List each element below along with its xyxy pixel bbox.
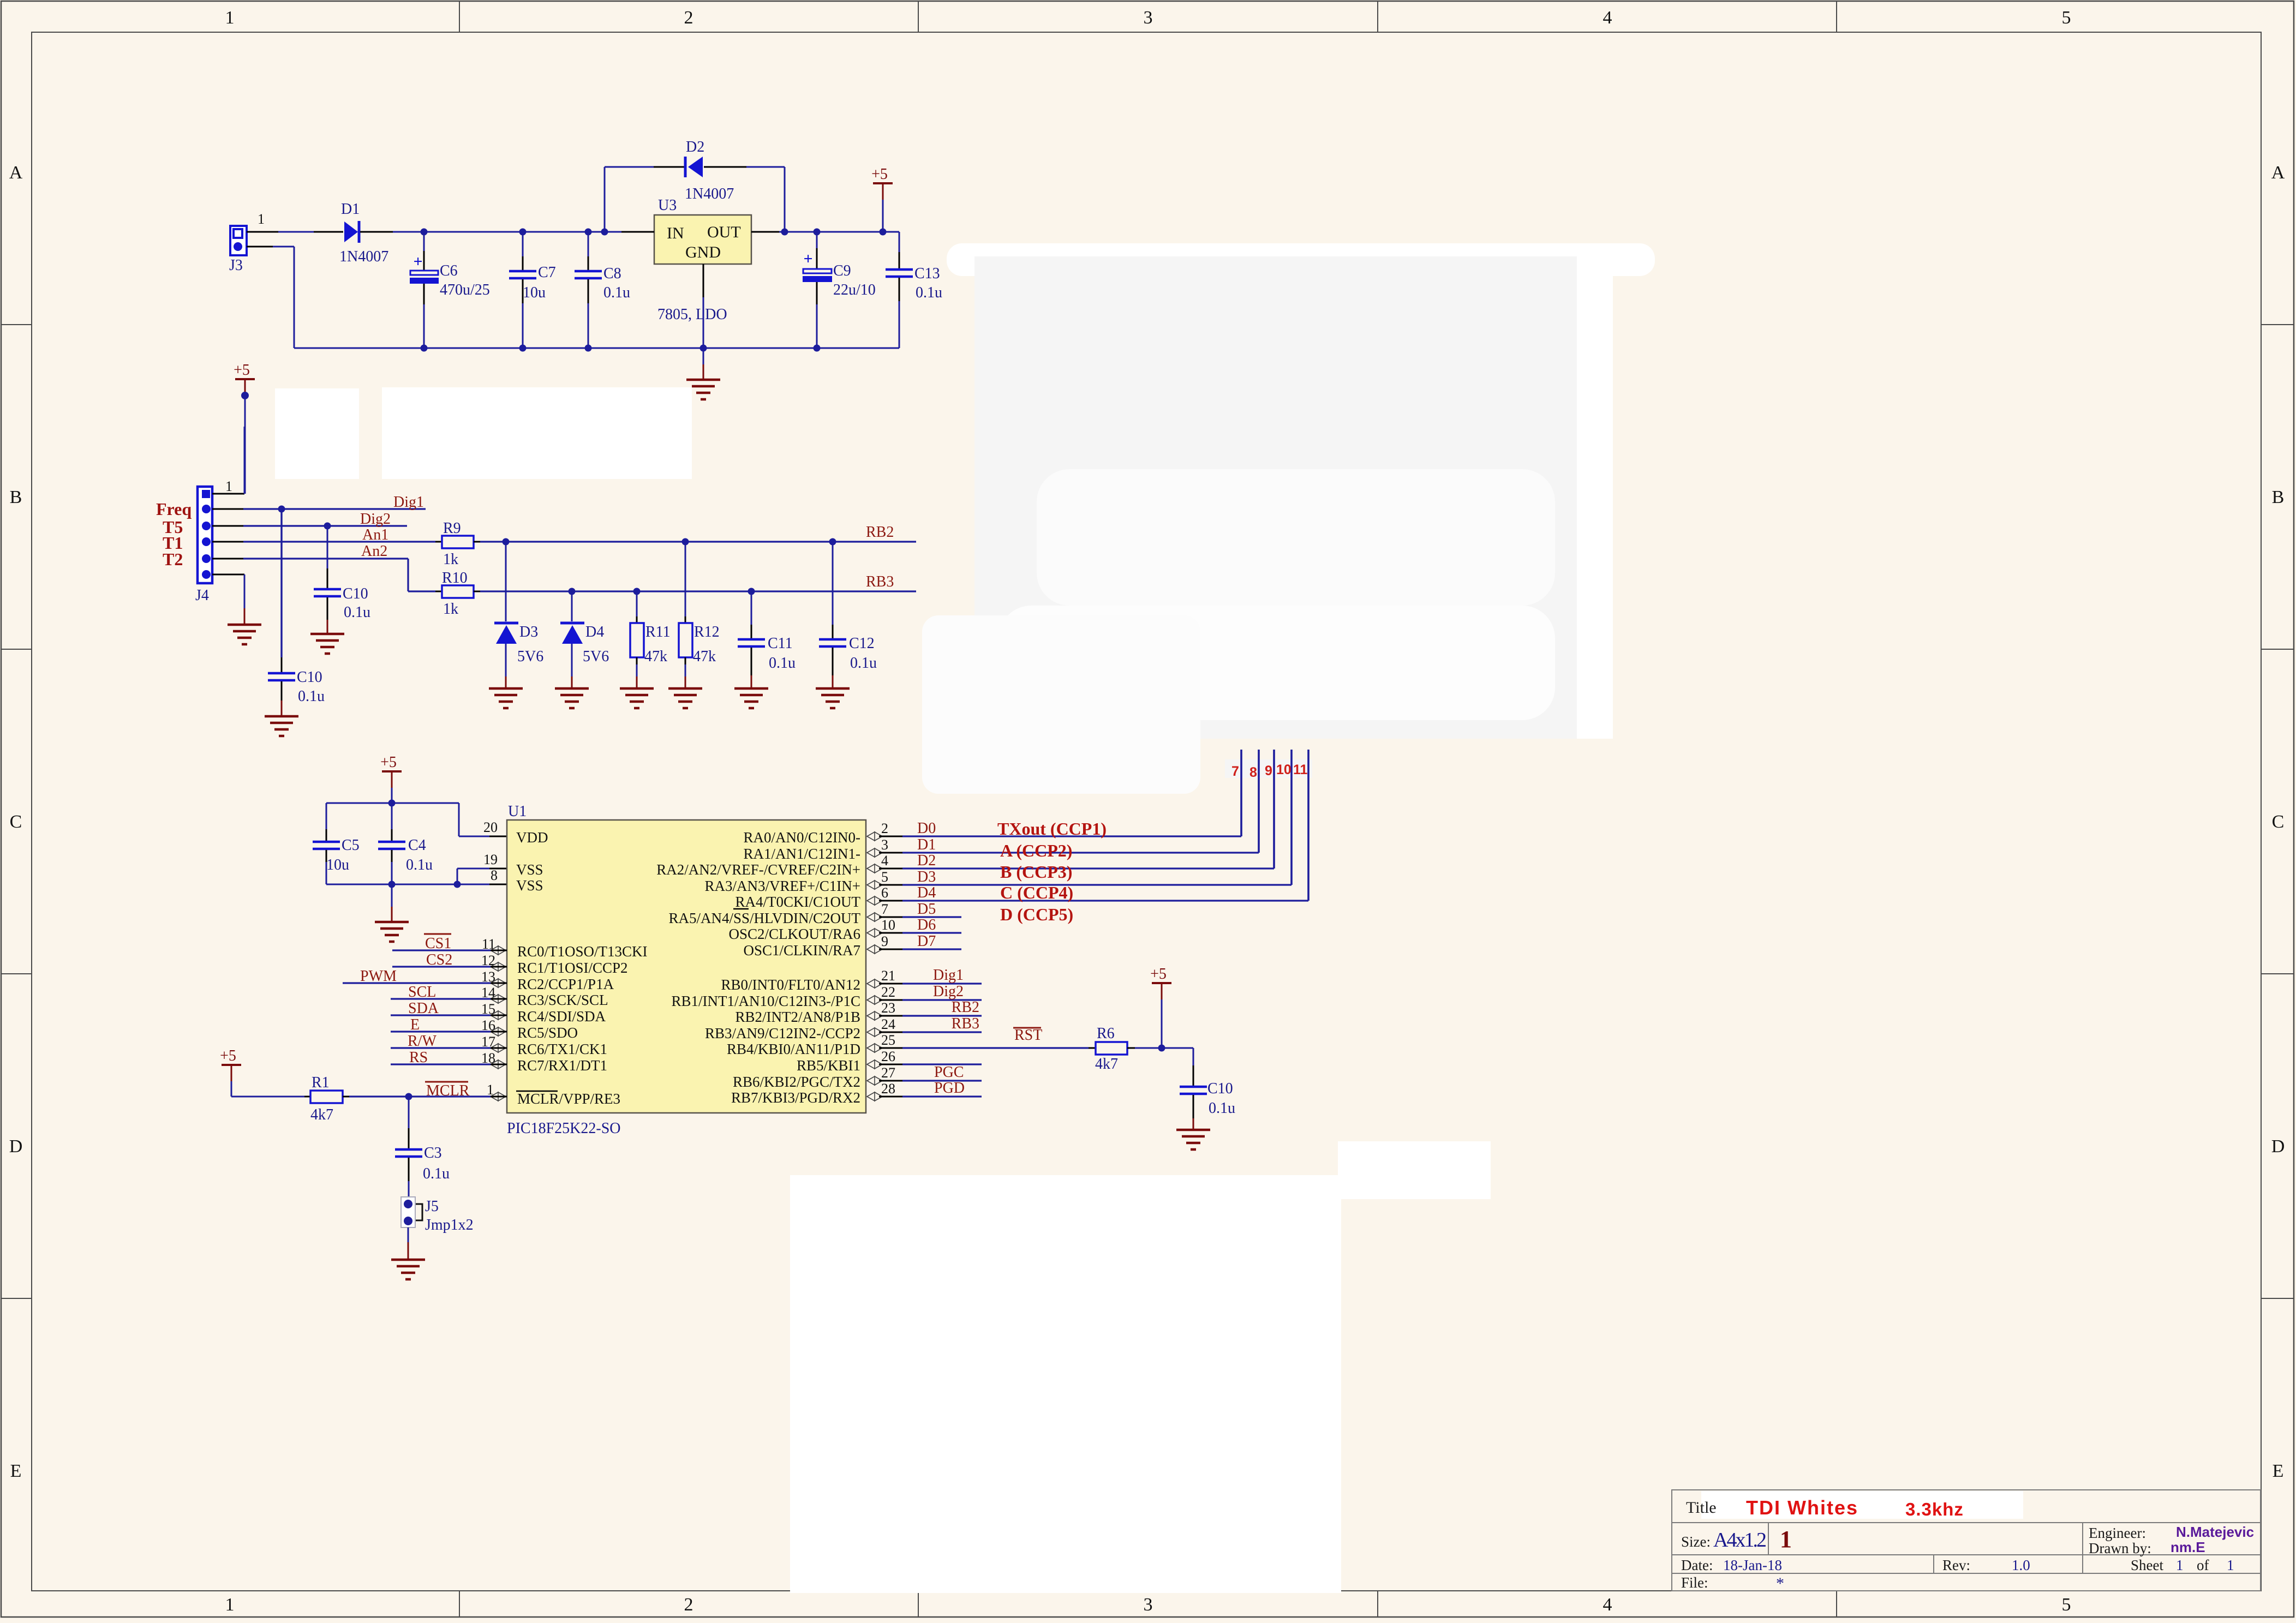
svg-text:1: 1 [258,211,265,227]
connector J4 [195,487,212,604]
svg-text:PIC18F25K22-SO: PIC18F25K22-SO [507,1120,620,1137]
erased area scribble 2 [1037,469,1555,606]
svg-text:1: 1 [2176,1557,2184,1573]
title TDI Whites 3.3khz [1746,1496,1964,1519]
svg-text:PGD: PGD [934,1080,965,1097]
svg-text:A4x1.2: A4x1.2 [1713,1529,1766,1552]
svg-text:E: E [410,1016,420,1033]
svg-text:0.1u: 0.1u [1209,1100,1235,1117]
label RB2 [866,524,894,541]
svg-text:An2: An2 [361,543,387,560]
label bus pin 7 [1231,764,1239,779]
svg-text:5: 5 [881,869,888,885]
svg-text:of: of [2197,1557,2209,1573]
svg-text:Rev:: Rev: [1942,1557,1970,1573]
svg-text:0.1u: 0.1u [850,655,877,672]
svg-text:28: 28 [881,1081,895,1097]
label T1 [163,533,183,553]
svg-text:D2: D2 [686,139,704,155]
svg-text:C4: C4 [408,837,426,854]
svg-text:0.1u: 0.1u [603,284,630,301]
capacitor C7 [509,232,556,348]
svg-text:C10: C10 [1207,1080,1233,1097]
svg-text:C6: C6 [440,262,458,279]
wire D1 to C6 node [360,231,424,233]
svg-text:C9: C9 [833,262,851,279]
wire J3 pin2 down [247,247,294,348]
wire +5 to R1 [231,1096,310,1098]
ground R11 [620,688,654,708]
erased area right strip [1577,256,1613,739]
svg-text:Date:: Date: [1681,1557,1713,1573]
svg-text:+5: +5 [871,166,888,183]
svg-text:C8: C8 [603,265,621,282]
svg-text:A: A [2271,163,2285,183]
zener D3 [494,542,543,688]
svg-text:47k: 47k [644,648,667,665]
capacitor C8 [575,232,630,348]
svg-text:U3: U3 [658,197,677,214]
label sheet number 1 [1780,1526,1792,1553]
svg-text:D6: D6 [917,917,936,933]
svg-text:RB4/KBI0/AN11/P1D: RB4/KBI0/AN11/P1D [727,1041,860,1057]
svg-text:An1: An1 [362,526,388,543]
label An1 [362,526,388,543]
wire PWM net [343,982,507,984]
wire D2 net to bus [879,750,1274,869]
svg-text:7: 7 [1231,764,1239,779]
svg-text:7: 7 [881,901,888,917]
wire R/W net [391,1047,507,1049]
wire pin row y1833 [879,999,982,1001]
label RB2 [952,999,979,1016]
svg-text:A (CCP2): A (CCP2) [1000,841,1072,860]
pin 28 RB7/KBI3/PGD/RX2 [731,1081,895,1106]
capacitor C6 electrolytic [410,232,490,348]
power +5 R1 [220,1047,241,1097]
pin 20 VDD [483,819,548,846]
wire R6 to C10 [1135,1045,1193,1066]
svg-text:B: B [2272,487,2285,507]
pin 27 RB6/KBI2/PGC/TX2 [733,1065,895,1090]
wire U3 IN pin [621,231,654,233]
svg-text:N.Matejevic: N.Matejevic [2176,1524,2254,1540]
svg-text:B (CCP3): B (CCP3) [1000,862,1072,882]
capacitor C9 electrolytic [803,232,876,348]
svg-text:Jmp1x2: Jmp1x2 [425,1217,474,1233]
svg-text:1: 1 [1780,1526,1792,1553]
ground C10 Dig2 [310,634,344,654]
svg-text:4k7: 4k7 [1095,1056,1118,1073]
svg-text:10: 10 [881,917,895,933]
bottom rail wire [294,348,899,349]
ground C10 Dig1 [265,716,298,736]
label Drawn by [2089,1539,2205,1556]
ground C11 [734,688,768,708]
label D4 [917,884,936,901]
label bus pin 11 [1293,762,1308,777]
svg-text:2: 2 [881,821,888,836]
svg-text:D0: D0 [917,820,936,837]
label E [410,1016,420,1033]
pin 22 RB1/INT1/AN10/C12IN3-/P1C [671,984,895,1009]
erased area main blob [974,256,1578,739]
pin 21 RB0/INT0/FLT0/AN12 [721,968,895,993]
pin 5 RA3/AN3/VREF+/C1IN+ [705,869,888,894]
svg-text:RC5/SDO: RC5/SDO [517,1025,578,1041]
wire CS2 net [392,966,507,967]
svg-text:R6: R6 [1097,1025,1115,1042]
pin 3 RA1/AN1/C12IN1- [744,837,889,862]
svg-text:TXout (CCP1): TXout (CCP1) [997,819,1107,839]
svg-text:11: 11 [1293,762,1308,777]
svg-text:23: 23 [881,1000,895,1016]
label C (CCP4) [1000,883,1073,902]
label D1 [917,836,936,853]
label RST [1013,1027,1042,1044]
pin 1 MCLR/VPP/RE3 [487,1082,620,1107]
svg-text:5V6: 5V6 [583,648,609,665]
svg-text:OUT: OUT [707,223,741,241]
svg-text:C: C [10,812,22,832]
capacitor C3 [395,1097,450,1198]
wire pin row y1862 [879,1015,982,1017]
label B (CCP3) [1000,862,1072,882]
label PGD [934,1080,965,1097]
wire SCL net [391,998,507,999]
svg-text:TDI Whites: TDI Whites [1746,1496,1858,1519]
pin 14 RC3/SCK/SCL [481,985,608,1008]
label File [1681,1574,1784,1592]
svg-text:2: 2 [684,1595,693,1615]
node dots decoupling [388,800,461,888]
svg-text:20: 20 [483,819,498,835]
svg-text:3: 3 [1144,8,1153,28]
capacitor C10 on Dig1 [268,506,325,717]
wire RST net [879,1047,1089,1049]
capacitor C12 [819,542,877,688]
power +5 regulator output [871,166,893,232]
diode D1 [339,201,388,265]
label TXout (CCP1) [997,819,1107,839]
svg-text:24: 24 [881,1016,895,1032]
svg-text:1: 1 [2227,1557,2234,1573]
regulator U3 [654,197,751,323]
wire An2 net [212,559,435,591]
label Dig1 [933,967,964,984]
svg-text:D: D [9,1136,23,1157]
svg-text:C (CCP4): C (CCP4) [1000,883,1073,902]
pin 16 RC5/SDO [481,1017,578,1041]
svg-text:J3: J3 [229,257,243,274]
svg-text:J4: J4 [195,587,209,604]
pin 10 OSC2/CLKOUT/RA6 [728,917,895,942]
label Dig1 [393,494,424,511]
svg-text:PGC: PGC [934,1064,964,1081]
svg-text:D2: D2 [917,852,936,869]
svg-text:21: 21 [881,968,895,984]
svg-text:MCLR/VPP/RE3: MCLR/VPP/RE3 [517,1091,620,1107]
svg-text:RB2: RB2 [866,524,894,541]
svg-text:RB3: RB3 [952,1015,979,1032]
svg-text:C12: C12 [849,635,875,652]
svg-text:1: 1 [225,1595,235,1615]
svg-text:C11: C11 [768,635,793,652]
svg-text:D1: D1 [917,836,936,853]
svg-text:22u/10: 22u/10 [833,282,876,298]
resistor R10 [435,570,480,618]
svg-text:RB1/INT1/AN10/C12IN3-/P1C: RB1/INT1/AN10/C12IN3-/P1C [671,993,860,1009]
resistor R1 [310,1074,343,1123]
svg-text:Sheet: Sheet [2131,1557,2163,1573]
pin 19 VSS [483,852,543,878]
pin 6 RA4/T0CKI/C1OUT [736,885,889,910]
svg-text:SDA: SDA [408,1000,439,1017]
zener D4 [560,591,609,688]
label Dig2 [933,983,964,1000]
label Date [1681,1557,1782,1573]
svg-text:CS1: CS1 [425,935,451,952]
erased area top band [947,243,1655,276]
svg-text:1.0: 1.0 [2012,1557,2030,1573]
svg-text:Dig1: Dig1 [933,967,964,984]
wire pin row y1803 [879,983,982,985]
svg-text:RC3/SCK/SCL: RC3/SCK/SCL [517,992,608,1008]
wire D5 net [879,917,961,918]
svg-text:10: 10 [1276,762,1291,777]
top rail wire [424,231,621,233]
svg-text:RA5/AN4/SS/HLVDIN/C2OUT: RA5/AN4/SS/HLVDIN/C2OUT [668,910,860,926]
svg-text:R10: R10 [442,570,468,586]
label D5 [917,901,936,918]
svg-text:RC1/T1OSI/CCP2: RC1/T1OSI/CCP2 [517,960,628,976]
svg-text:RB5/KBI1: RB5/KBI1 [797,1057,860,1074]
label bus pin 9 [1265,763,1272,778]
svg-text:IN: IN [667,224,684,242]
svg-text:4: 4 [1603,8,1612,28]
pin 4 RA2/AN2/VREF-/CVREF/C2IN+ [656,853,888,878]
label Freq [156,499,192,519]
svg-text:RS: RS [409,1049,428,1066]
label CS2 [426,951,452,968]
svg-text:R12: R12 [694,624,720,640]
diode D2 bypass [605,139,785,232]
svg-text:File:: File: [1681,1574,1708,1591]
label An2 [361,543,387,560]
svg-text:SCL: SCL [408,984,436,1001]
connector J3 [229,226,247,274]
svg-text:OSC2/CLKOUT/RA6: OSC2/CLKOUT/RA6 [728,926,860,942]
wire RS net [391,1063,507,1065]
svg-text:+: + [803,250,812,268]
erased area mid patch [1338,1141,1491,1199]
wire MCLR net [343,1093,507,1100]
svg-text:E: E [10,1461,22,1481]
svg-text:3: 3 [1144,1595,1153,1615]
ground decoupling [375,884,409,942]
svg-text:0.1u: 0.1u [406,857,433,873]
wire D7 net [879,949,961,950]
svg-text:D: D [2271,1136,2285,1157]
svg-text:9: 9 [1265,763,1272,778]
svg-text:0.1u: 0.1u [344,604,370,621]
wire VSS bottom [326,869,507,884]
svg-text:GND: GND [685,243,721,261]
node dots RB rows [503,538,836,595]
label Engineer [2089,1524,2254,1541]
label Rev [1942,1557,2030,1573]
svg-text:D1: D1 [341,201,360,218]
erased area scribble 3 [998,606,1555,720]
svg-text:5V6: 5V6 [517,648,543,665]
svg-text:C7: C7 [538,264,556,281]
svg-text:RA0/AN0/C12IN0-: RA0/AN0/C12IN0- [744,829,861,846]
wire J3 pin1 to D1 [247,211,343,232]
svg-text:RB7/KBI3/PGD/RX2: RB7/KBI3/PGD/RX2 [731,1089,860,1106]
pin 18 RC7/RX1/DT1 [481,1050,607,1074]
label D2 [917,852,936,869]
svg-text:19: 19 [483,852,498,867]
svg-text:C13: C13 [914,265,940,282]
title text white patch [1701,1491,2023,1519]
ground C12 [816,688,850,708]
capacitor C5 [313,803,360,884]
svg-text:+5: +5 [234,362,250,379]
pin 17 RC6/TX1/CK1 [481,1034,607,1057]
wire pin row y1981 [879,1080,982,1082]
svg-text:8: 8 [1249,765,1257,780]
svg-text:R9: R9 [443,520,461,537]
wire D3 net to bus [879,750,1291,885]
label D0 [917,820,936,837]
svg-text:RB3: RB3 [866,573,894,590]
svg-text:R11: R11 [645,624,671,640]
svg-text:47k: 47k [693,648,716,665]
svg-text:RC4/SDI/SDA: RC4/SDI/SDA [517,1008,606,1025]
pin 7 RA5/AN4/SS/HLVDIN/C2OUT [668,901,888,926]
svg-text:RA2/AN2/VREF-/CVREF/C2IN+: RA2/AN2/VREF-/CVREF/C2IN+ [656,861,860,878]
svg-text:J5: J5 [425,1198,439,1215]
svg-text:nm.E: nm.E [2171,1539,2205,1555]
svg-text:D7: D7 [917,933,936,950]
svg-text:Freq: Freq [156,499,192,519]
pin 8 VSS [491,867,543,894]
svg-text:VSS: VSS [516,861,543,878]
label SDA [408,1000,439,1017]
label Size [1681,1529,1766,1552]
svg-text:5: 5 [2062,1595,2071,1615]
label RB3 [866,573,894,590]
svg-text:1k: 1k [443,551,458,568]
svg-text:D4: D4 [917,884,936,901]
erased remnant behind bus numbers [1225,759,1312,778]
wire SDA net [391,1014,507,1016]
label D6 [917,917,936,933]
svg-text:OSC1/CLKIN/RA7: OSC1/CLKIN/RA7 [743,942,860,959]
svg-text:Dig1: Dig1 [393,494,424,511]
svg-text:VSS: VSS [516,877,543,894]
wire D4 net to bus [879,750,1308,901]
svg-text:26: 26 [881,1049,895,1064]
pin 9 OSC1/CLKIN/RA7 [743,933,888,959]
pin 24 RB3/AN9/C12IN2-/CCP2 [705,1016,895,1041]
svg-text:D4: D4 [585,624,604,640]
svg-text:T2: T2 [163,549,183,569]
ground R12 [668,688,702,708]
erased area lower left [922,615,1200,794]
svg-text:CS2: CS2 [426,951,452,968]
power +5 J4 [234,362,255,494]
pin 11 RC0/T1OSO/T13CKI [482,936,648,960]
ground D4 [555,688,589,708]
svg-text:1: 1 [225,478,232,494]
wire J4 pin1 to +5 [212,427,244,494]
svg-text:1k: 1k [443,601,458,618]
svg-text:0.1u: 0.1u [423,1165,450,1182]
pin 23 RB2/INT2/AN8/P1B [735,1000,895,1025]
resistor R6 [1089,1025,1135,1073]
wire U3 OUT to +5 node [751,231,899,233]
svg-text:RC0/T1OSO/T13CKI: RC0/T1OSO/T13CKI [517,943,648,960]
label D3 [917,869,936,885]
label RB3 [952,1015,979,1032]
svg-text:C: C [2272,812,2285,832]
svg-text:PWM: PWM [360,968,397,985]
label T5 [163,517,183,537]
label Sheet of [2131,1557,2234,1573]
svg-text:RA3/AN3/VREF+/C1IN+: RA3/AN3/VREF+/C1IN+ [705,878,860,894]
svg-text:Drawn by:: Drawn by: [2089,1540,2151,1556]
power +5 MCU [380,754,402,803]
svg-text:RA1/AN1/C12IN1-: RA1/AN1/C12IN1- [744,846,861,862]
svg-text:7805, LDO: 7805, LDO [657,306,727,323]
capacitor C13 [886,232,942,348]
pin 25 RB4/KBI0/AN11/P1D [727,1032,895,1057]
node dots top rail [421,229,887,236]
svg-text:10u: 10u [523,284,546,301]
resistor R11 [630,591,671,688]
svg-text:D3: D3 [917,869,936,885]
label R/W [408,1033,437,1050]
svg-text:C3: C3 [424,1145,442,1161]
label bus pin 8 [1249,765,1257,780]
resistor R12 [679,542,720,688]
label D7 [917,933,936,950]
svg-text:1N4007: 1N4007 [339,248,388,265]
jumper J5 [401,1197,474,1233]
svg-text:RB6/KBI2/PGC/TX2: RB6/KBI2/PGC/TX2 [733,1074,860,1090]
svg-text:E: E [2273,1461,2284,1481]
label A (CCP2) [1000,841,1072,860]
svg-text:3: 3 [881,837,888,853]
svg-text:1: 1 [225,8,235,28]
svg-text:RB3/AN9/C12IN2-/CCP2: RB3/AN9/C12IN2-/CCP2 [705,1025,860,1041]
svg-text:VDD: VDD [516,829,548,846]
svg-text:RB0/INT0/FLT0/AN12: RB0/INT0/FLT0/AN12 [721,977,860,993]
wire Dig2 net [212,525,407,527]
ground C10 RST [1176,1130,1210,1149]
label Title [1686,1499,1717,1517]
svg-text:18-Jan-18: 18-Jan-18 [1723,1557,1782,1573]
wire D6 net [879,932,961,934]
wire E net [391,1031,507,1032]
label T2 [163,549,183,569]
pin 2 RA0/AN0/C12IN0- [744,821,889,846]
capacitor C10 on Dig2 [314,523,370,634]
wire pin row y2010 [879,1096,982,1098]
label D (CCP5) [1000,905,1073,924]
pin 12 RC1/T1OSI/CCP2 [481,953,628,976]
